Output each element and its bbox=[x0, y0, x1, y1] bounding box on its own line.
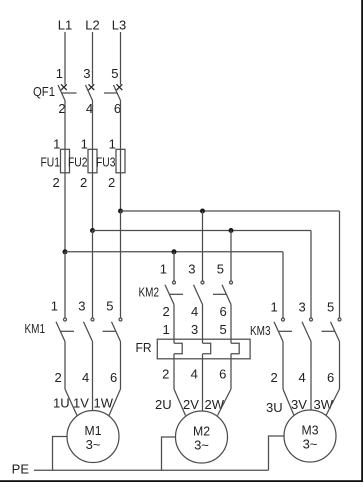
QF1 pole 3 breaker cross bbox=[117, 84, 123, 90]
junction L1 bus to KM2 pin1 bbox=[172, 249, 177, 254]
wire M2 lead V bbox=[202, 389, 204, 411]
svg-text:3U: 3U bbox=[266, 400, 283, 415]
KM2 linkage dash pole3 bbox=[213, 293, 227, 295]
wire KM3 pin 2 to M3 bbox=[282, 342, 284, 390]
wire KM1 pin 4 to M1 bbox=[92, 342, 94, 390]
svg-text:6: 6 bbox=[219, 367, 226, 382]
wire FR pin 4 to M2 bbox=[202, 354, 204, 389]
svg-text:4: 4 bbox=[191, 367, 198, 382]
wire L2 bus drop to KM2 pin5 bbox=[230, 231, 232, 281]
QF1 linkage dash pole3 bbox=[104, 92, 117, 94]
motor M3 bbox=[284, 410, 336, 462]
KM3 pole 3 blade bbox=[331, 322, 340, 342]
wire KM1 pin 2 to M1 bbox=[64, 342, 66, 390]
wire KM2 pin 6 to FR bbox=[230, 305, 232, 344]
svg-text:KM2: KM2 bbox=[139, 284, 160, 299]
svg-text:5: 5 bbox=[106, 299, 113, 314]
KM1 linkage dash pole3 bbox=[103, 330, 117, 332]
wire through fuse FU1 bbox=[64, 149, 66, 173]
svg-text:5: 5 bbox=[219, 322, 226, 337]
junction J3 (L3 tap) bbox=[118, 209, 123, 214]
junction J2 (L2 tap) bbox=[90, 228, 95, 233]
svg-text:5: 5 bbox=[217, 262, 224, 277]
svg-text:1U: 1U bbox=[53, 396, 70, 411]
svg-text:3V: 3V bbox=[291, 397, 307, 412]
KM2 linkage dash pole1 bbox=[169, 293, 183, 295]
QF1 pole 1 breaker cross bbox=[61, 84, 67, 90]
wire KM3 pin 6 to M3 bbox=[339, 342, 341, 390]
wire L2 to QF1 pin3 bbox=[92, 32, 94, 85]
wire M3 lead W bbox=[326, 389, 340, 416]
KM2 pole 1 blade bbox=[165, 285, 174, 305]
svg-text:1: 1 bbox=[160, 262, 167, 277]
wire QF1 pin 2 to FU1 bbox=[64, 101, 66, 150]
motor M1 bbox=[67, 411, 119, 463]
svg-text:FR: FR bbox=[136, 340, 152, 355]
svg-text:2: 2 bbox=[162, 304, 169, 319]
KM3 pole 1 fixed contact bbox=[282, 318, 285, 321]
svg-text:1W: 1W bbox=[94, 396, 114, 411]
svg-text:L1: L1 bbox=[58, 18, 72, 33]
fuse FU3 bbox=[116, 149, 125, 173]
wire J3 to KM1 pin5 bbox=[120, 211, 122, 318]
svg-text:1V: 1V bbox=[73, 396, 89, 411]
wire FU3 to node J3 bbox=[120, 173, 122, 211]
svg-text:6: 6 bbox=[110, 370, 117, 385]
svg-text:5: 5 bbox=[327, 300, 334, 315]
wire M1 lead W bbox=[109, 389, 121, 416]
svg-text:4: 4 bbox=[82, 370, 89, 385]
svg-text:3W: 3W bbox=[314, 397, 334, 412]
KM3 pole 2 blade bbox=[302, 322, 311, 342]
wire PE riser to M3 bbox=[269, 436, 285, 470]
wire L2 bus drop to KM3 pin3 bbox=[310, 231, 312, 319]
svg-text:2: 2 bbox=[54, 370, 61, 385]
wire through fuse FU3 bbox=[120, 149, 122, 173]
svg-text:3~: 3~ bbox=[303, 437, 318, 452]
wire FU2 to node J2 bbox=[92, 173, 94, 231]
svg-text:PE: PE bbox=[12, 462, 30, 477]
wire L1 bus bbox=[65, 251, 283, 253]
KM2 pole 3 fixed contact bbox=[230, 281, 233, 284]
wire through fuse FU2 bbox=[92, 149, 94, 173]
svg-text:QF1: QF1 bbox=[33, 84, 55, 99]
svg-text:3~: 3~ bbox=[194, 438, 209, 453]
wire PE bus bbox=[34, 469, 269, 471]
KM1 pole 1 fixed contact bbox=[64, 318, 67, 321]
KM2 pole 3 blade bbox=[222, 285, 231, 305]
junction L2 bus to KM2 pin5 bbox=[229, 228, 234, 233]
wire KM3 pin 4 to M3 bbox=[310, 342, 312, 390]
svg-text:1: 1 bbox=[81, 137, 88, 152]
wire M2 lead U bbox=[174, 389, 186, 416]
wire M2 lead W bbox=[218, 389, 232, 416]
svg-text:L2: L2 bbox=[85, 18, 99, 33]
fuse FU1 bbox=[61, 149, 70, 173]
wire QF1 pin 4 to FU2 bbox=[92, 101, 94, 150]
wire M1 lead U bbox=[65, 389, 77, 416]
svg-text:2V: 2V bbox=[183, 397, 199, 412]
svg-text:KM1: KM1 bbox=[25, 321, 46, 336]
svg-text:1: 1 bbox=[270, 300, 277, 315]
svg-text:1: 1 bbox=[56, 66, 63, 81]
junction L3 bus to KM2 pin3 bbox=[200, 209, 205, 214]
QF1 pole 3 blade bbox=[114, 85, 121, 101]
KM3 pole 3 fixed contact bbox=[338, 318, 341, 321]
QF1 pole 1 blade bbox=[58, 85, 65, 101]
svg-text:1: 1 bbox=[162, 322, 169, 337]
motor M2 bbox=[176, 411, 228, 463]
wire FR pin 6 to M2 bbox=[230, 354, 232, 389]
KM1 pole 1 blade bbox=[56, 322, 65, 342]
svg-text:2: 2 bbox=[108, 175, 115, 190]
svg-text:3: 3 bbox=[298, 300, 305, 315]
wire M3 lead V bbox=[310, 389, 312, 410]
KM2 pole 1 fixed contact bbox=[173, 281, 176, 284]
border bottom edge bbox=[0, 480, 363, 482]
KM1 pole 2 blade bbox=[84, 322, 93, 342]
svg-text:1: 1 bbox=[51, 299, 58, 314]
KM2 pole 2 fixed contact bbox=[201, 281, 204, 284]
KM3 linkage dash pole1 bbox=[278, 330, 292, 332]
svg-text:FU2: FU2 bbox=[68, 154, 88, 169]
KM3 linkage dash pole3 bbox=[322, 330, 336, 332]
svg-text:M3: M3 bbox=[302, 423, 319, 438]
svg-text:2U: 2U bbox=[155, 397, 172, 412]
wire L3 bus drop to KM3 pin5 bbox=[339, 211, 341, 318]
QF1 pole 2 breaker cross bbox=[89, 84, 95, 90]
svg-text:FU3: FU3 bbox=[96, 154, 116, 169]
KM1 linkage dash pole1 bbox=[60, 330, 74, 332]
svg-text:3: 3 bbox=[191, 322, 198, 337]
svg-text:3: 3 bbox=[78, 299, 85, 314]
svg-text:5: 5 bbox=[111, 66, 118, 81]
wire M3 lead U bbox=[283, 389, 294, 416]
svg-text:3: 3 bbox=[188, 262, 195, 277]
svg-text:3: 3 bbox=[83, 66, 90, 81]
wire PE tap to M1 bbox=[53, 437, 68, 471]
wire L3 bus bbox=[121, 210, 340, 212]
svg-text:4: 4 bbox=[191, 304, 198, 319]
wire KM1 pin 6 to M1 bbox=[120, 342, 122, 390]
svg-text:2W: 2W bbox=[205, 397, 225, 412]
svg-text:L3: L3 bbox=[112, 18, 126, 33]
wire M1 lead V bbox=[92, 389, 94, 411]
KM1 pole 3 blade bbox=[112, 322, 121, 342]
svg-text:FU1: FU1 bbox=[41, 154, 61, 169]
FR pole 2 heater element bbox=[203, 343, 211, 354]
svg-text:2: 2 bbox=[162, 367, 169, 382]
KM3 pole 2 fixed contact bbox=[310, 318, 313, 321]
svg-text:6: 6 bbox=[327, 370, 334, 385]
svg-text:KM3: KM3 bbox=[250, 323, 271, 338]
FR pole 1 heater element bbox=[174, 343, 182, 354]
wire L3 bus drop to KM2 pin3 bbox=[202, 211, 204, 281]
wire J1 to KM1 pin1 bbox=[64, 252, 66, 318]
KM3 pole 1 blade bbox=[274, 322, 283, 342]
fuse FU2 bbox=[88, 149, 97, 173]
svg-text:2: 2 bbox=[52, 175, 59, 190]
wire QF1 pin 6 to FU3 bbox=[120, 101, 122, 150]
svg-text:4: 4 bbox=[298, 370, 305, 385]
KM1 pole 2 fixed contact bbox=[91, 318, 94, 321]
wire KM2 pin 2 to FR bbox=[173, 305, 175, 344]
wire L1 bus drop to KM2 pin1 bbox=[173, 252, 175, 281]
svg-text:2: 2 bbox=[270, 370, 277, 385]
thermal relay FR box bbox=[157, 339, 250, 359]
svg-text:1: 1 bbox=[109, 137, 116, 152]
svg-text:2: 2 bbox=[80, 175, 87, 190]
svg-text:1: 1 bbox=[53, 137, 60, 152]
wire FU1 to node J1 bbox=[64, 173, 66, 252]
FR pole 3 heater element bbox=[231, 343, 239, 354]
KM1 pole 3 fixed contact bbox=[119, 318, 122, 321]
QF1 linkage dash pole1 bbox=[62, 92, 77, 94]
wire PE tap to M2 bbox=[162, 437, 176, 470]
wire KM2 pin 4 to FR bbox=[202, 305, 204, 344]
svg-text:M2: M2 bbox=[193, 424, 210, 439]
KM2 pole 2 blade bbox=[194, 285, 203, 305]
wire FR pin 2 to M2 bbox=[173, 354, 175, 389]
wire L2 bus bbox=[93, 230, 312, 232]
wire L1 bus drop to KM3 pin1 bbox=[282, 252, 284, 318]
svg-text:3~: 3~ bbox=[86, 437, 101, 452]
border right edge bbox=[361, 0, 363, 482]
svg-text:6: 6 bbox=[219, 304, 226, 319]
wire L1 to QF1 pin1 bbox=[64, 32, 66, 85]
wire J2 to KM1 pin3 bbox=[92, 231, 94, 319]
wire L3 to QF1 pin5 bbox=[120, 32, 122, 85]
junction J1 (L1 tap) bbox=[63, 249, 68, 254]
svg-text:M1: M1 bbox=[85, 423, 102, 438]
QF1 pole 2 blade bbox=[86, 85, 93, 101]
